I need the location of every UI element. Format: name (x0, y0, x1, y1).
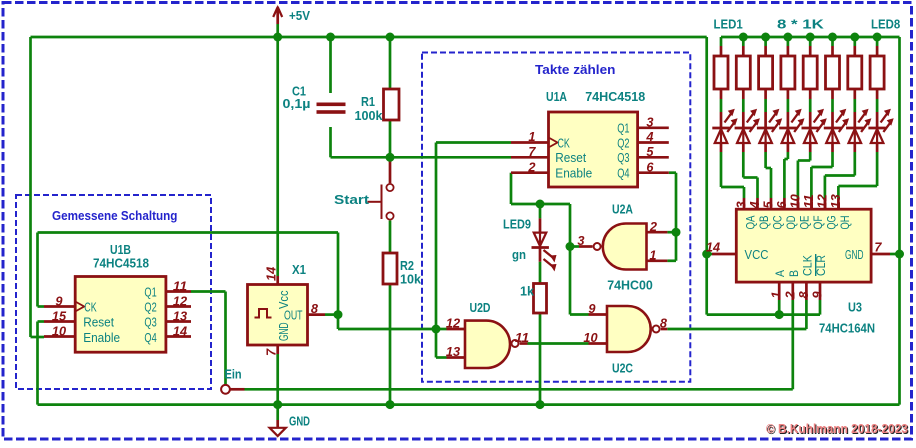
svg-text:QD: QD (786, 216, 798, 230)
svg-text:12: 12 (446, 317, 460, 331)
svg-text:B: B (787, 270, 801, 277)
svg-text:10: 10 (583, 331, 597, 345)
svg-text:8: 8 (660, 317, 667, 331)
svg-text:1: 1 (528, 130, 535, 144)
svg-text:2: 2 (649, 220, 657, 234)
svg-text:11: 11 (173, 279, 187, 293)
svg-text:11: 11 (515, 331, 529, 345)
svg-text:QA: QA (746, 215, 758, 229)
svg-text:Q3: Q3 (617, 150, 629, 165)
svg-text:4: 4 (645, 130, 653, 144)
svg-text:3: 3 (646, 116, 653, 130)
svg-text:74HC4518: 74HC4518 (93, 256, 149, 271)
svg-text:Enable: Enable (83, 330, 120, 345)
svg-text:© B.Kuhlmann 2018-2023: © B.Kuhlmann 2018-2023 (766, 421, 908, 436)
svg-text:11: 11 (802, 194, 816, 208)
svg-text:12: 12 (815, 194, 829, 208)
svg-text:10k: 10k (400, 272, 422, 287)
svg-text:6: 6 (775, 200, 789, 208)
svg-text:Enable: Enable (555, 166, 592, 181)
svg-text:13: 13 (173, 309, 187, 323)
svg-text:Q2: Q2 (617, 135, 629, 150)
svg-text:U2C: U2C (612, 361, 633, 376)
svg-text:Reset: Reset (83, 314, 114, 329)
svg-text:12: 12 (173, 294, 187, 308)
svg-text:7: 7 (265, 348, 279, 356)
svg-text:9: 9 (588, 302, 595, 316)
svg-text:8: 8 (311, 302, 318, 316)
svg-text:Q3: Q3 (144, 314, 156, 329)
svg-text:U2A: U2A (612, 202, 633, 217)
svg-text:X1: X1 (292, 262, 306, 277)
svg-text:9: 9 (55, 294, 62, 308)
svg-text:QH: QH (840, 216, 852, 230)
svg-text:Q2: Q2 (144, 299, 156, 314)
svg-text:QF: QF (813, 216, 825, 230)
svg-text:5: 5 (646, 145, 654, 159)
svg-text:CLK: CLK (800, 255, 814, 276)
svg-text:15: 15 (52, 309, 67, 323)
svg-text:3: 3 (577, 234, 584, 248)
svg-text:8 * 1K: 8 * 1K (777, 17, 825, 32)
svg-text:QC: QC (773, 216, 785, 230)
svg-text:+5V: +5V (289, 8, 310, 23)
svg-text:CK: CK (84, 299, 97, 314)
svg-text:2: 2 (783, 291, 797, 299)
svg-text:CK: CK (558, 135, 571, 150)
svg-text:U2D: U2D (470, 300, 491, 315)
svg-text:6: 6 (646, 160, 654, 174)
svg-text:Q1: Q1 (617, 121, 629, 136)
svg-text:13: 13 (829, 194, 843, 208)
svg-text:100k: 100k (355, 108, 384, 123)
svg-text:Takte zählen: Takte zählen (535, 62, 615, 77)
svg-text:GND: GND (276, 323, 291, 342)
svg-text:74HC4518: 74HC4518 (585, 89, 645, 104)
svg-text:Q4: Q4 (144, 330, 156, 345)
svg-text:3: 3 (735, 201, 749, 208)
svg-text:LED8: LED8 (871, 17, 900, 32)
svg-text:LED1: LED1 (714, 17, 743, 32)
svg-text:U1A: U1A (546, 89, 567, 104)
svg-text:QE: QE (799, 215, 811, 229)
svg-text:10: 10 (52, 324, 66, 338)
svg-text:5: 5 (762, 200, 776, 208)
svg-text:14: 14 (173, 324, 187, 338)
svg-text:Start: Start (334, 192, 370, 207)
svg-text:2: 2 (527, 160, 535, 174)
svg-text:QG: QG (826, 215, 838, 229)
svg-text:Gemessene Schaltung: Gemessene Schaltung (52, 208, 177, 223)
svg-text:LED9: LED9 (503, 217, 531, 232)
svg-text:4: 4 (748, 201, 762, 209)
svg-text:Q4: Q4 (617, 166, 629, 181)
svg-text:7: 7 (528, 145, 536, 159)
svg-text:10: 10 (788, 194, 802, 208)
svg-text:7: 7 (874, 241, 882, 255)
svg-text:VCC: VCC (745, 247, 769, 262)
svg-text:1: 1 (649, 249, 656, 263)
svg-text:9: 9 (811, 291, 825, 298)
svg-text:GND: GND (845, 247, 864, 262)
svg-text:Reset: Reset (555, 150, 586, 165)
svg-text:U3: U3 (848, 300, 862, 315)
svg-text:14: 14 (706, 241, 720, 255)
svg-text:Ein: Ein (225, 367, 242, 382)
svg-text:1: 1 (770, 291, 784, 298)
svg-text:gn: gn (512, 247, 526, 262)
svg-text:Vcc: Vcc (276, 290, 291, 309)
svg-text:R1: R1 (361, 94, 375, 109)
svg-text:Q1: Q1 (144, 284, 156, 299)
svg-text:A: A (773, 270, 787, 277)
svg-text:GND: GND (289, 414, 310, 429)
svg-text:8: 8 (797, 291, 811, 298)
svg-text:QB: QB (759, 215, 771, 229)
svg-text:74HC164N: 74HC164N (819, 321, 875, 336)
svg-text:0,1µ: 0,1µ (283, 96, 311, 111)
svg-text:1k: 1k (520, 284, 535, 299)
svg-text:13: 13 (446, 345, 460, 359)
svg-text:14: 14 (265, 267, 279, 281)
svg-text:74HC00: 74HC00 (607, 278, 653, 293)
